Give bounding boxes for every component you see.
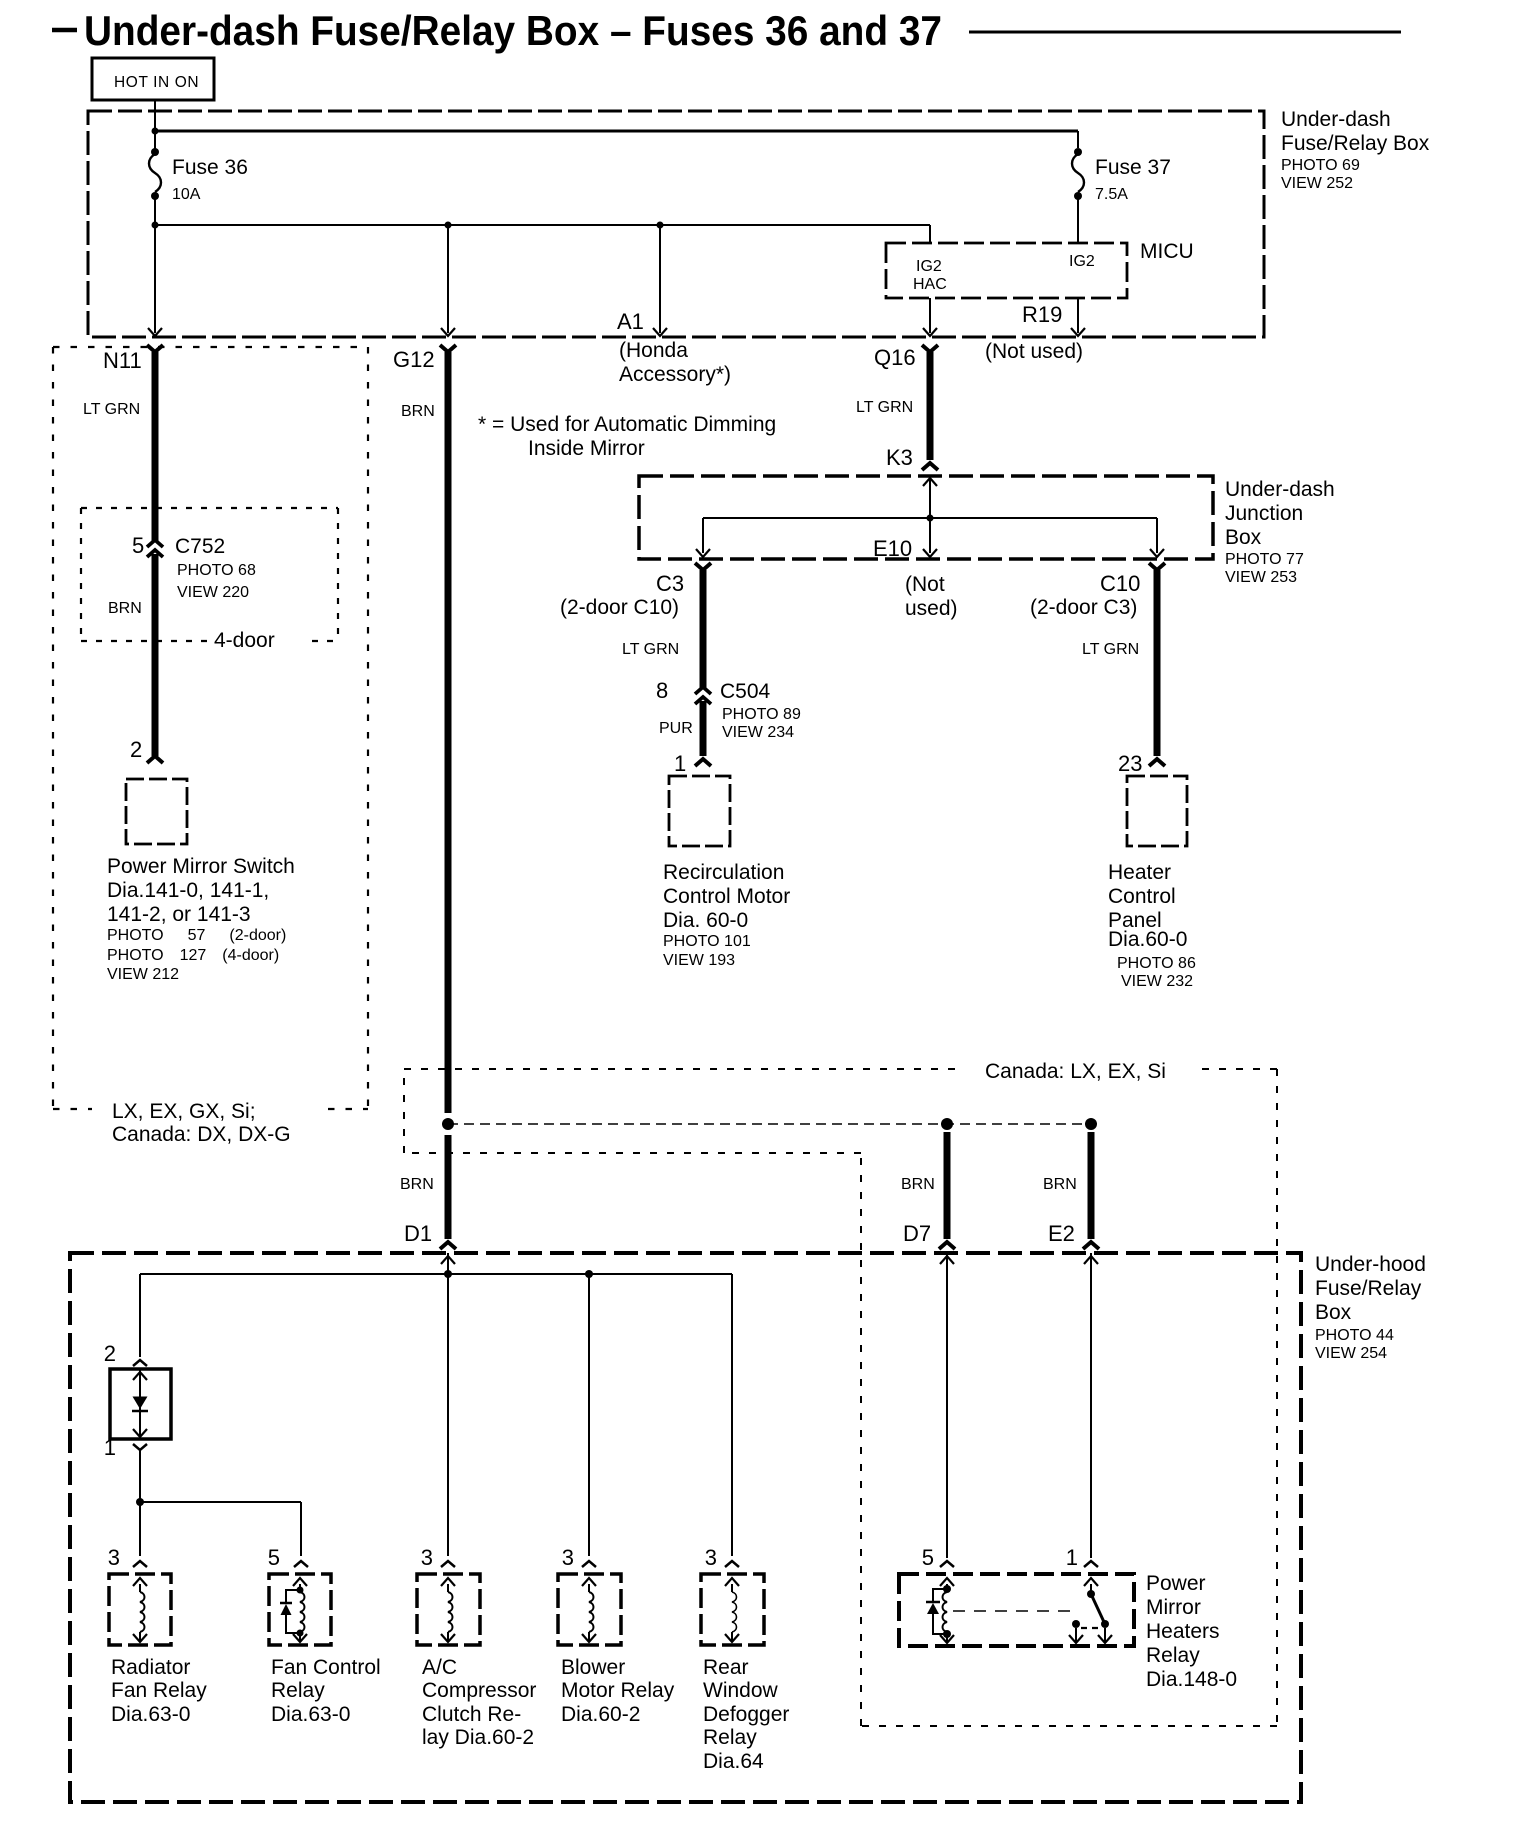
svg-text:Clutch Re-: Clutch Re- [422,1703,521,1726]
svg-text:IG2: IG2 [1069,253,1095,270]
svg-text:Defogger: Defogger [703,1703,789,1726]
terminal cup G12 [440,345,456,352]
svg-text:Dia.148-0: Dia.148-0 [1146,1668,1237,1691]
top bus wire [155,130,1078,133]
under-hood fuse/relay box [70,1253,1301,1802]
MICU pin R19 exit wire [1077,298,1079,333]
svg-text:Compressor: Compressor [422,1679,536,1702]
power mirror switch box [126,779,187,844]
svg-text:Fuse/Relay: Fuse/Relay [1315,1277,1422,1300]
svg-text:PHOTO 57 (2-door): PHOTO 57 (2-door) [107,927,286,944]
svg-text:Q16: Q16 [874,345,916,370]
svg-text:N11: N11 [103,348,142,373]
MICU box [886,243,1127,298]
recirculation control motor box [669,776,730,846]
blower relay coil [582,1578,596,1586]
svg-text:Junction: Junction [1225,502,1303,525]
svg-text:PHOTO 69: PHOTO 69 [1281,157,1360,174]
svg-text:Fan Relay: Fan Relay [111,1679,207,1702]
wire C10 to heater control panel [1154,570,1161,756]
svg-text:Relay: Relay [271,1679,325,1702]
svg-text:Dia.63-0: Dia.63-0 [271,1703,350,1726]
junction at fuse 36 top [152,128,159,135]
terminal skirt rear defogger relay [725,1561,739,1567]
wire fuse37 to MICU [1077,196,1079,243]
wire G12 drop [447,225,449,333]
svg-text:1: 1 [674,751,686,776]
svg-text:(Not: (Not [905,573,945,596]
under-hood bus wire [140,1273,732,1275]
power mirror relay linkage [953,1610,1074,1612]
terminal skirt A/C relay [441,1561,455,1567]
junction node N11 feed [152,222,159,229]
wire C752 to power mirror switch [152,554,159,756]
svg-text:Window: Window [703,1679,779,1702]
svg-text:E10: E10 [873,536,912,561]
svg-text:C752: C752 [175,535,225,558]
A/C compressor clutch relay box [417,1574,480,1645]
svg-text:Mirror: Mirror [1146,1596,1201,1619]
junction node A1 feed [657,222,664,229]
svg-text:VIEW 220: VIEW 220 [177,584,249,601]
svg-text:Rear: Rear [703,1656,749,1679]
rear window defogger relay box [701,1574,764,1645]
svg-text:Power Mirror Switch: Power Mirror Switch [107,855,295,878]
fan control relay box [269,1574,331,1645]
fuse 37 [1074,148,1082,156]
terminal skirt recirculation pin 1 [695,759,711,766]
terminal skirt D7 [939,1242,955,1249]
terminal cup C3 [695,563,711,570]
svg-text:3: 3 [705,1545,717,1570]
svg-text:Under-dash: Under-dash [1281,108,1391,131]
wire D7 into under-hood box [940,1256,954,1264]
svg-text:PHOTO 68: PHOTO 68 [177,562,256,579]
svg-text:Fuse 37: Fuse 37 [1095,156,1171,179]
terminal skirt fan control relay [294,1561,308,1567]
radiator fan diode internals [133,1372,147,1380]
svg-text:(2-door C10): (2-door C10) [560,596,679,619]
wire C3 to C504 [700,570,707,688]
svg-text:2: 2 [104,1341,116,1366]
svg-text:Relay: Relay [1146,1644,1200,1667]
svg-text:HAC: HAC [913,276,947,293]
optional dashed wire D1-D7-E2 [448,1123,1091,1125]
svg-text:LT GRN: LT GRN [622,641,679,658]
wire Q16 to K3 [927,352,934,460]
svg-text:PHOTO 77: PHOTO 77 [1225,551,1304,568]
svg-text:3: 3 [562,1545,574,1570]
power mirror relay coil [940,1578,954,1586]
svg-text:Dia.63-0: Dia.63-0 [111,1703,190,1726]
wire C504 to recirculation motor [700,701,707,756]
A/C relay coil [441,1578,455,1586]
svg-text:used): used) [905,597,958,620]
blower motor relay box [558,1574,621,1645]
svg-text:PHOTO 44: PHOTO 44 [1315,1327,1394,1344]
svg-text:Under-dash Fuse/Relay Box – Fu: Under-dash Fuse/Relay Box – Fuses 36 and… [84,7,942,54]
svg-text:(Not used): (Not used) [985,340,1083,363]
svg-text:VIEW 252: VIEW 252 [1281,175,1353,192]
wire hot-in-on to fuse 36 [154,100,156,150]
svg-text:Dia.141-0, 141-1,: Dia.141-0, 141-1, [107,879,269,902]
svg-text:Under-hood: Under-hood [1315,1253,1426,1276]
wire N11 drop [154,225,156,333]
svg-text:Box: Box [1225,526,1262,549]
terminal skirt K3 [922,463,938,470]
wire E2 drop [1088,1132,1095,1239]
svg-text:Heater: Heater [1108,861,1171,884]
svg-text:PHOTO 127 (4-door): PHOTO 127 (4-door) [107,947,279,964]
svg-text:VIEW 232: VIEW 232 [1121,973,1193,990]
svg-text:BRN: BRN [108,600,142,617]
junction node G12 feed [445,222,452,229]
svg-text:Fuse 36: Fuse 36 [172,156,248,179]
radiator fan diode box [110,1369,171,1439]
svg-text:LX, EX, GX, Si;: LX, EX, GX, Si; [112,1100,256,1123]
heater control panel box [1127,776,1187,846]
svg-text:Fuse/Relay Box: Fuse/Relay Box [1281,132,1430,155]
terminal cup N11 [147,345,163,352]
svg-text:Recirculation: Recirculation [663,861,784,884]
svg-text:5: 5 [922,1545,934,1570]
terminal cup Q16 [922,345,938,352]
splice dot E2 [1085,1118,1097,1130]
svg-text:Box: Box [1315,1301,1352,1324]
title dash [52,28,77,33]
terminal skirt heater pin 23 [1149,759,1165,766]
svg-text:Dia. 60-0: Dia. 60-0 [663,909,748,932]
wire fuse36 to bus [154,196,156,225]
svg-text:BRN: BRN [400,1176,434,1193]
svg-text:Blower: Blower [561,1656,625,1679]
svg-text:IG2: IG2 [916,258,942,275]
junction box internal node [927,515,934,522]
svg-text:Under-dash: Under-dash [1225,478,1335,501]
wire A1 drop [659,225,661,333]
svg-text:Canada: LX, EX, Si: Canada: LX, EX, Si [985,1060,1166,1083]
Canada LX EX Si dotted box [404,1068,961,1070]
terminal skirt E2 [1083,1242,1099,1249]
svg-text:HOT IN ON: HOT IN ON [114,74,199,91]
MICU pin Q16 exit wire [929,298,931,333]
svg-text:D1: D1 [404,1221,432,1246]
svg-text:K3: K3 [886,445,913,470]
junction dot D1 bus [444,1270,452,1278]
svg-text:LT GRN: LT GRN [856,399,913,416]
svg-text:Dia.60-0: Dia.60-0 [1108,928,1187,951]
svg-text:Dia.60-2: Dia.60-2 [561,1703,640,1726]
svg-text:lay Dia.60-2: lay Dia.60-2 [422,1726,534,1749]
svg-text:5: 5 [268,1545,280,1570]
svg-text:Fan Control: Fan Control [271,1656,381,1679]
terminal skirt power mirror switch pin 2 [147,756,163,763]
svg-text:1: 1 [1066,1545,1078,1570]
svg-text:VIEW 253: VIEW 253 [1225,569,1297,586]
svg-text:3: 3 [108,1545,120,1570]
terminal skirt D1 [440,1242,456,1249]
svg-text:Radiator: Radiator [111,1656,190,1679]
svg-text:10A: 10A [172,186,201,203]
svg-text:Inside Mirror: Inside Mirror [528,437,645,460]
under-dash junction box [639,476,1213,559]
svg-text:Power: Power [1146,1572,1206,1595]
wire bus to blower relay [588,1274,590,1556]
terminal skirt blower relay [582,1561,596,1567]
svg-text:PHOTO 101: PHOTO 101 [663,933,751,950]
wire N11 to C752 [152,352,159,541]
wire branch to fan control relay [140,1501,301,1503]
svg-text:3: 3 [421,1545,433,1570]
svg-text:* = Used for Automatic Dimming: * = Used for Automatic Dimming [478,413,776,436]
terminal skirt relay pin 5 [940,1561,954,1567]
junction dot blower bus [585,1270,593,1278]
svg-text:Heaters: Heaters [1146,1620,1220,1643]
svg-text:(2-door C3): (2-door C3) [1030,596,1137,619]
fuse 36 [151,148,159,156]
terminal skirt diode pin 2 [133,1360,147,1366]
junction box internal bus [703,517,1157,519]
svg-text:LT GRN: LT GRN [83,401,140,418]
svg-text:(Honda: (Honda [619,339,688,362]
wire G12 down [445,352,452,1113]
svg-text:5: 5 [132,533,144,558]
svg-text:PHOTO 86: PHOTO 86 [1117,955,1196,972]
svg-text:C504: C504 [720,680,771,703]
svg-text:BRN: BRN [901,1176,935,1193]
svg-text:7.5A: 7.5A [1095,186,1128,203]
svg-text:VIEW 193: VIEW 193 [663,952,735,969]
junction box internal wire K3-E10 [923,478,937,486]
second bus wire [155,224,930,226]
svg-text:Dia.64: Dia.64 [703,1750,764,1773]
wire bus to radiator fan diode [139,1274,141,1357]
svg-text:MICU: MICU [1140,240,1194,263]
svg-text:A1: A1 [617,309,644,334]
svg-text:PHOTO 89: PHOTO 89 [722,706,801,723]
terminal skirt radiator fan relay [133,1561,147,1567]
optional splice dot D1 [442,1118,454,1130]
wire D1 drop [445,1135,452,1239]
svg-text:Control: Control [1108,885,1176,908]
svg-text:23: 23 [1118,751,1142,776]
svg-text:Control Motor: Control Motor [663,885,790,908]
rear defogger relay coil [725,1578,739,1586]
svg-text:Relay: Relay [703,1726,757,1749]
svg-text:C3: C3 [656,571,684,596]
svg-text:PUR: PUR [659,720,693,737]
radiator fan relay coil [133,1578,147,1586]
wire diode pin1 down [139,1450,141,1556]
splice dot D7 [941,1118,953,1130]
radiator fan relay box [109,1574,171,1645]
wire E2 into under-hood box [1084,1256,1098,1264]
connector C752 [147,540,163,547]
svg-text:8: 8 [656,678,668,703]
svg-text:VIEW 254: VIEW 254 [1315,1345,1387,1362]
terminal cup diode pin 1 [133,1444,147,1450]
under-dash fuse/relay box [88,111,1264,337]
svg-text:BRN: BRN [1043,1176,1077,1193]
wire bus to rear defogger relay [731,1274,733,1556]
svg-text:4-door: 4-door [214,629,275,652]
power mirror heaters relay box [899,1574,1134,1646]
svg-text:141-2, or 141-3: 141-2, or 141-3 [107,903,251,926]
power mirror relay switch [1084,1578,1098,1586]
svg-text:1: 1 [104,1435,116,1460]
svg-text:D7: D7 [903,1221,931,1246]
4-door dashed box [81,507,338,509]
title rule [969,31,1401,34]
svg-text:Motor Relay: Motor Relay [561,1679,675,1702]
junction box C3 branch [702,518,704,553]
svg-text:G12: G12 [393,347,435,372]
junction box C10 branch [1156,518,1158,553]
terminal skirt relay pin 1 [1084,1561,1098,1567]
svg-text:C10: C10 [1100,571,1140,596]
svg-text:R19: R19 [1022,302,1062,327]
wire bus to MICU IG2/HAC pin [929,225,931,243]
svg-text:VIEW 234: VIEW 234 [722,724,794,741]
connector C504 [695,687,711,694]
svg-text:Accessory*): Accessory*) [619,363,731,386]
power mirror relay diode [933,1589,947,1601]
LX/EX/GX/Si dashed box [53,346,368,348]
wire D1 into under-hood box [441,1256,455,1264]
svg-text:Canada: DX, DX-G: Canada: DX, DX-G [112,1123,291,1146]
junction dot fan-control branch [136,1498,144,1506]
fan control relay diode [297,1587,304,1594]
fan control relay coil [293,1578,307,1586]
wire D7 drop [944,1132,951,1239]
fuse 37 feed wire [1077,131,1079,148]
svg-text:E2: E2 [1048,1221,1075,1246]
svg-text:LT GRN: LT GRN [1082,641,1139,658]
svg-text:2: 2 [130,737,142,762]
svg-text:A/C: A/C [422,1656,457,1679]
svg-text:BRN: BRN [401,403,435,420]
HOT IN ON box [92,58,214,100]
svg-text:VIEW 212: VIEW 212 [107,966,179,983]
terminal cup C10 [1149,563,1165,570]
